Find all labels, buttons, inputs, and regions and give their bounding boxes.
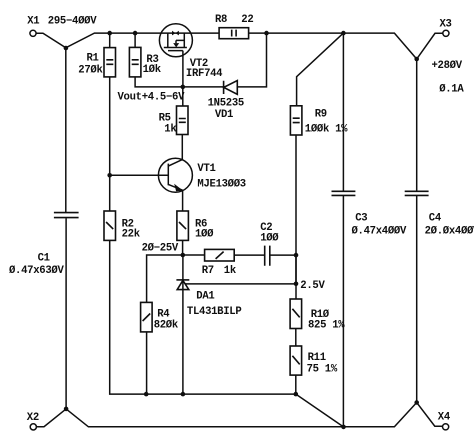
- svg-text:X4: X4: [438, 412, 451, 424]
- svg-text:22k: 22k: [122, 229, 141, 241]
- svg-text:+28ØV: +28ØV: [432, 60, 463, 72]
- svg-text:X1: X1: [27, 16, 39, 28]
- svg-text:IRF744: IRF744: [186, 68, 223, 80]
- svg-text:Ø.47x4ØØV: Ø.47x4ØØV: [352, 226, 407, 238]
- svg-text:2Ø.Øx4ØØV: 2Ø.Øx4ØØV: [425, 226, 474, 238]
- svg-text:1ØØk 1%: 1ØØk 1%: [305, 124, 348, 136]
- svg-text:Ø.1A: Ø.1A: [439, 84, 464, 96]
- svg-text:R9: R9: [315, 109, 327, 121]
- svg-text:75 1%: 75 1%: [307, 363, 338, 375]
- svg-text:X3: X3: [440, 18, 452, 30]
- svg-text:C3: C3: [355, 213, 367, 225]
- svg-text:DA1: DA1: [196, 291, 214, 303]
- svg-text:27Øk: 27Øk: [78, 65, 103, 77]
- svg-text:R8: R8: [215, 14, 227, 26]
- svg-text:Vout+4.5−6V: Vout+4.5−6V: [118, 91, 186, 103]
- svg-text:1Øk: 1Øk: [143, 64, 162, 76]
- svg-text:22: 22: [241, 14, 253, 26]
- svg-text:82Øk: 82Øk: [154, 320, 179, 332]
- svg-text:X2: X2: [27, 412, 39, 424]
- svg-text:1ØØ: 1ØØ: [195, 229, 214, 241]
- svg-text:295−4ØØV: 295−4ØØV: [48, 15, 97, 27]
- svg-text:1k: 1k: [164, 123, 177, 135]
- svg-text:VT1: VT1: [197, 163, 215, 175]
- svg-text:R11: R11: [308, 352, 326, 364]
- svg-text:1N5235: 1N5235: [208, 98, 244, 110]
- svg-text:2.5V: 2.5V: [300, 280, 325, 292]
- svg-text:C4: C4: [429, 213, 442, 225]
- svg-text:825 1%: 825 1%: [308, 320, 345, 332]
- svg-text:1ØØ: 1ØØ: [260, 232, 279, 244]
- svg-text:TL431BILP: TL431BILP: [187, 306, 242, 318]
- svg-text:R7: R7: [202, 265, 214, 277]
- svg-text:2Ø−25V: 2Ø−25V: [142, 243, 179, 255]
- svg-text:1k: 1k: [224, 265, 237, 277]
- svg-text:MJE13ØØ3: MJE13ØØ3: [197, 179, 245, 191]
- svg-text:C1: C1: [38, 252, 50, 264]
- svg-text:R1: R1: [87, 53, 99, 65]
- svg-text:Ø.47x63ØV: Ø.47x63ØV: [9, 265, 64, 277]
- svg-text:VD1: VD1: [215, 109, 233, 121]
